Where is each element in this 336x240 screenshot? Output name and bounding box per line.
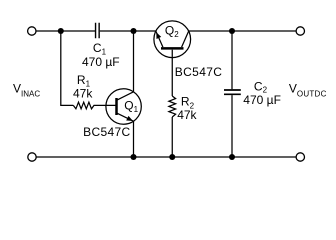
svg-text:470 µF: 470 µF — [82, 55, 120, 69]
svg-text:BC547C: BC547C — [175, 65, 222, 79]
svg-text:470 µF: 470 µF — [243, 93, 281, 107]
svg-text:Q2: Q2 — [165, 23, 179, 39]
svg-text:VOUTDC: VOUTDC — [289, 82, 327, 99]
svg-text:BC547C: BC547C — [83, 125, 130, 139]
svg-text:47k: 47k — [73, 87, 93, 101]
svg-text:47k: 47k — [177, 108, 197, 122]
svg-text:Q1: Q1 — [124, 99, 138, 114]
svg-text:VINAC: VINAC — [13, 82, 40, 99]
